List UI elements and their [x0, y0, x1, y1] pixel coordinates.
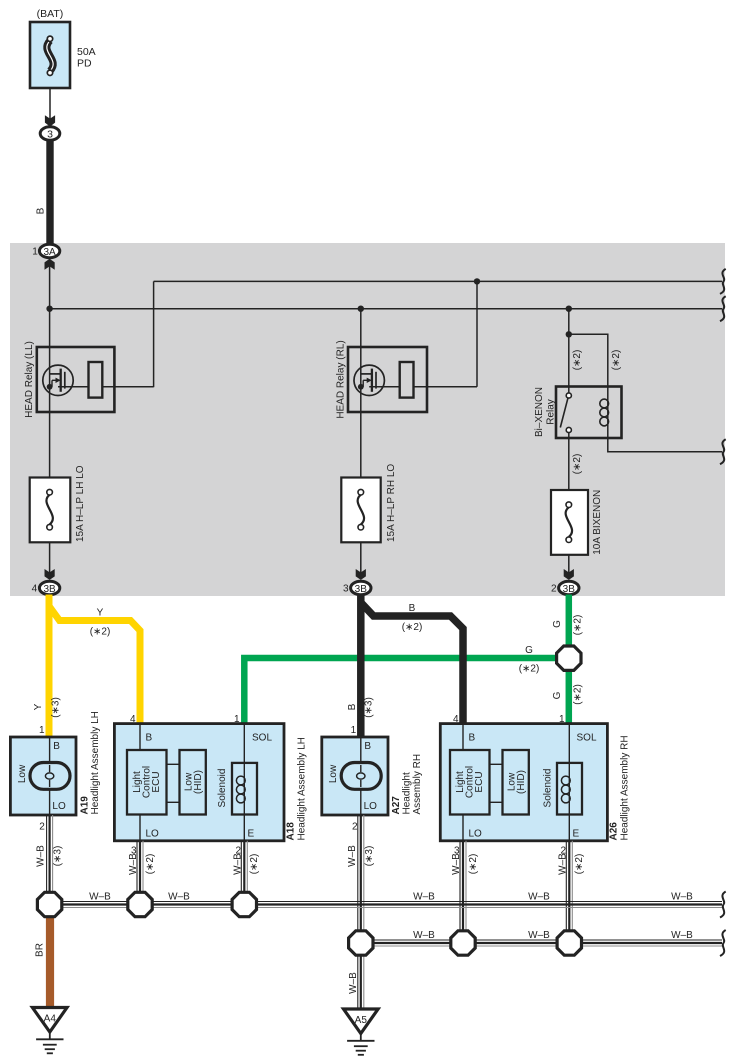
- label Y on branch: [97, 608, 104, 619]
- svg-text:A19: A19: [80, 796, 91, 815]
- wire G (green) from 3B to splice: [566, 595, 573, 651]
- svg-text:G: G: [552, 691, 563, 699]
- value label 50A PD: [77, 46, 96, 70]
- svg-text:G: G: [525, 645, 533, 656]
- wire color label B: [36, 207, 47, 214]
- svg-text:Headlight Assembly RH: Headlight Assembly RH: [620, 735, 631, 840]
- splice octagon bus1 A18 E: [232, 892, 256, 916]
- svg-text:(∗2): (∗2): [145, 854, 156, 875]
- svg-text:W–B: W–B: [232, 853, 243, 875]
- svg-text:B: B: [36, 207, 47, 214]
- svg-text:LO: LO: [469, 829, 483, 840]
- junction dot RL column at bus 2: [358, 306, 364, 312]
- label (*3) on A19 drop: [51, 697, 62, 718]
- label (*2) (A18 LO): [145, 854, 156, 875]
- pin 3 of connector 3B (RL): [343, 584, 349, 595]
- HEAD Relay (RL) label: [336, 340, 347, 418]
- pin 3 of A26: [454, 846, 460, 857]
- wire W-B from A26 E to splice bus 2: [566, 841, 572, 934]
- svg-text:2: 2: [39, 822, 45, 833]
- label BR: [35, 943, 46, 957]
- label A27: [391, 796, 402, 815]
- break mark bus 1 right edge: [720, 269, 726, 294]
- label (*2) on branch: [402, 622, 423, 633]
- connector 3B (bixenon): [559, 581, 579, 595]
- connector 3: [40, 127, 60, 141]
- wire LL relay output riser: [153, 281, 155, 387]
- break mark bus2 right edge: [720, 930, 726, 956]
- arrow into 3B (RL): [356, 569, 366, 580]
- svg-text:15A H–LP RH LO: 15A H–LP RH LO: [386, 464, 397, 542]
- junction dot RL output riser at bus 1: [474, 278, 480, 284]
- svg-text:B: B: [53, 741, 60, 752]
- wire W-B from A18 LO to splice: [137, 841, 143, 895]
- svg-text:1: 1: [32, 247, 38, 258]
- svg-text:W–B: W–B: [671, 930, 693, 941]
- label G above splice: [552, 620, 563, 628]
- label Headlight Assembly RH (A26): [620, 735, 631, 840]
- wire W-B from bus2 splice down to ground A5: [358, 952, 364, 1009]
- svg-text:E: E: [573, 829, 580, 840]
- pin 2 of A27: [352, 822, 358, 833]
- svg-text:W–B: W–B: [671, 892, 693, 903]
- pin 1 of connector 3A: [32, 247, 38, 258]
- svg-text:(∗2): (∗2): [402, 622, 423, 633]
- svg-text:2: 2: [551, 584, 557, 595]
- splice octagon (green): [557, 646, 581, 670]
- label (*2) above splice: [572, 615, 583, 636]
- label W-B bus1 a: [89, 892, 111, 903]
- svg-text:E: E: [248, 829, 255, 840]
- break mark bus1 right edge: [720, 892, 726, 918]
- arrow into connector 3: [45, 115, 55, 126]
- splice octagon bus2 A26 LO: [451, 931, 475, 955]
- pin 2 of connector 3B (bixenon): [551, 584, 557, 595]
- wire Bi-XENON column (bus 2 down to relay): [568, 309, 570, 387]
- wire W-B from A27 down to splice bus 2: [358, 815, 364, 934]
- label Y on A19 drop: [33, 703, 44, 710]
- label (BAT): [37, 8, 64, 20]
- svg-text:BR: BR: [35, 943, 46, 957]
- label Headlight Assembly LH (A19): [90, 711, 101, 814]
- label W-B (A19 drop): [36, 845, 47, 867]
- label W-B bus1 e: [671, 892, 693, 903]
- wire fuse RL to connector 3B: [360, 542, 362, 573]
- svg-text:(BAT): (BAT): [37, 8, 64, 20]
- svg-text:Headlight: Headlight: [402, 772, 413, 814]
- junction dot Bi-XENON column at bus 2: [566, 306, 572, 312]
- pin 4 of A26: [453, 714, 459, 725]
- svg-text:Assembly RH: Assembly RH: [412, 754, 423, 815]
- svg-text:ECU: ECU: [151, 771, 162, 792]
- svg-text:A5: A5: [355, 1015, 368, 1026]
- svg-text:W–B: W–B: [557, 853, 568, 875]
- wire W-B from A19 to splice: [47, 815, 53, 895]
- svg-text:SOL: SOL: [252, 733, 272, 744]
- break mark bus 2 right edge: [720, 296, 726, 321]
- splice octagon bus2 A27: [349, 931, 373, 955]
- svg-text:(∗2): (∗2): [611, 350, 622, 371]
- relay HEAD Relay (LL): [37, 347, 154, 412]
- svg-text:Low: Low: [328, 764, 339, 783]
- label Headlight Assembly LH (A18): [297, 737, 308, 840]
- wire branch to relay coil: [569, 334, 608, 387]
- label A18: [286, 822, 297, 841]
- label (*2) below relay: [572, 454, 583, 475]
- svg-text:W–B: W–B: [451, 853, 462, 875]
- svg-text:Headlight Assembly LH: Headlight Assembly LH: [90, 711, 101, 814]
- label (*2) (A18 E): [249, 854, 260, 875]
- svg-text:Low: Low: [17, 764, 28, 783]
- svg-text:(∗3): (∗3): [51, 697, 62, 718]
- svg-text:B: B: [146, 733, 153, 744]
- svg-text:Solenoid: Solenoid: [217, 769, 228, 808]
- label (*3) on A27 drop: [364, 697, 375, 718]
- svg-text:W–B: W–B: [413, 930, 435, 941]
- splice octagon bus2 A26 E: [557, 931, 581, 955]
- wire B (black) main drop to A27: [357, 595, 365, 738]
- svg-text:1: 1: [351, 725, 357, 736]
- svg-text:3A: 3A: [43, 247, 56, 258]
- svg-text:(HID): (HID): [193, 770, 204, 794]
- label W-B bus1 c: [413, 892, 435, 903]
- svg-text:Y: Y: [33, 703, 44, 710]
- arrow into 3B (LL): [45, 569, 55, 580]
- junction dot Bi-XENON coil branch: [566, 331, 572, 337]
- wire W-B from A26 LO to splice bus 2: [460, 841, 466, 934]
- svg-text:B: B: [469, 733, 476, 744]
- pin 3 of A18: [131, 846, 137, 857]
- svg-text:W–B: W–B: [413, 892, 435, 903]
- svg-text:W–B: W–B: [528, 892, 550, 903]
- svg-text:(∗2): (∗2): [90, 627, 111, 638]
- pin 1 of A26: [559, 714, 565, 725]
- wire coil return to right edge: [608, 430, 722, 452]
- wire W-B ground bus 1: [50, 902, 722, 908]
- svg-text:ECU: ECU: [474, 771, 485, 792]
- label W-B (A18 E): [232, 853, 243, 875]
- svg-text:3: 3: [47, 129, 53, 141]
- Bi-XENON Relay label: [534, 387, 557, 437]
- svg-text:(∗2): (∗2): [468, 854, 479, 875]
- splice octagon bus1 A19: [37, 892, 61, 916]
- wire LL column vertical (3A to fuse): [49, 262, 51, 478]
- label (*2) on coil feed: [611, 350, 622, 371]
- ground A4: [32, 1008, 67, 1054]
- wire B (thick black battery feed): [46, 140, 53, 246]
- label (*3) (A19 drop): [53, 846, 64, 867]
- fuse 15A H-LP LH LO: [30, 478, 71, 543]
- svg-text:B: B: [347, 703, 358, 710]
- headlight assembly A27 (Low bulb RH): [322, 737, 388, 815]
- connector 3B (LL): [39, 581, 59, 595]
- wire relay switch to fuse: [568, 438, 570, 490]
- svg-text:W–B: W–B: [89, 892, 111, 903]
- wire bus line 2 (battery feed rail): [50, 308, 722, 310]
- svg-text:W–B: W–B: [128, 853, 139, 875]
- arrow up from 3A into relay block: [45, 259, 55, 270]
- label (*2) on horizontal green: [519, 664, 540, 675]
- relay Bi-XENON: [556, 387, 622, 439]
- label (*2) (A26 E): [574, 854, 585, 875]
- label W-B bus1 b: [168, 892, 190, 903]
- label (*2) below splice: [572, 684, 583, 705]
- pin 1 of A18: [234, 714, 240, 725]
- svg-text:Headlight Assembly LH: Headlight Assembly LH: [297, 737, 308, 840]
- headlight assembly A26 (HID unit RH): [440, 724, 607, 841]
- svg-text:W–B: W–B: [168, 892, 190, 903]
- svg-text:2: 2: [352, 822, 358, 833]
- relay block background (gray): [10, 243, 725, 596]
- wire fuse to connector 3B (bixenon): [568, 555, 570, 573]
- label W-B (ground A5 drop): [348, 972, 359, 994]
- pin 2 of A18: [235, 846, 241, 857]
- wire W-B ground bus 2: [361, 940, 722, 946]
- svg-text:(∗2): (∗2): [249, 854, 260, 875]
- svg-text:W–B: W–B: [36, 845, 47, 867]
- svg-text:HEAD Relay (RL): HEAD Relay (RL): [336, 340, 347, 418]
- svg-text:SOL: SOL: [577, 733, 597, 744]
- headlight assembly A19 (Low bulb LH): [10, 737, 76, 815]
- label (*2) (A26 LO): [468, 854, 479, 875]
- svg-text:B: B: [364, 741, 371, 752]
- fuse label 15A H-LP RH LO: [386, 464, 397, 542]
- label W-B (A27 drop): [347, 845, 358, 867]
- svg-text:(∗3): (∗3): [364, 846, 375, 867]
- svg-text:A18: A18: [286, 822, 297, 841]
- label W-B bus2 a: [413, 930, 435, 941]
- wire BR (brown) to ground A4: [46, 910, 54, 1008]
- headlight assembly A18 (HID unit LH): [114, 724, 284, 841]
- label (*2) on switch feed: [572, 350, 583, 371]
- svg-text:Bi–XENON: Bi–XENON: [534, 387, 545, 437]
- break mark coil return right edge: [720, 439, 726, 464]
- svg-text:A4: A4: [44, 1014, 57, 1025]
- relay HEAD Relay (RL): [348, 281, 477, 412]
- fusible link 50A PD (battery fuse): [30, 22, 70, 88]
- connector 3B (RL): [351, 581, 371, 595]
- pin 1 of A27: [351, 725, 357, 736]
- svg-text:G: G: [552, 620, 563, 628]
- wire W-B from A18 E to splice: [241, 841, 247, 895]
- svg-text:A26: A26: [609, 822, 620, 841]
- connector 3A: [39, 244, 59, 258]
- svg-text:LO: LO: [146, 829, 160, 840]
- svg-text:Solenoid: Solenoid: [543, 769, 554, 808]
- svg-text:W–B: W–B: [348, 972, 359, 994]
- svg-text:(∗2): (∗2): [572, 615, 583, 636]
- label W-B (A18 LO): [128, 853, 139, 875]
- wire RL column vertical (bus 2 to fuse): [360, 309, 362, 478]
- fuse 15A H-LP RH LO: [341, 478, 380, 543]
- svg-text:PD: PD: [77, 58, 92, 70]
- svg-text:(HID): (HID): [516, 770, 527, 794]
- svg-text:Y: Y: [97, 608, 104, 619]
- svg-text:(∗2): (∗2): [519, 664, 540, 675]
- svg-text:LO: LO: [52, 801, 66, 812]
- label W-B bus2 b: [528, 930, 550, 941]
- fuse label 15A H-LP LH LO: [75, 465, 86, 542]
- fuse 10A BIXENON: [551, 490, 588, 555]
- svg-text:W–B: W–B: [528, 930, 550, 941]
- svg-text:HEAD Relay (LL): HEAD Relay (LL): [24, 341, 35, 418]
- label Headlight Assembly RH (A27): [402, 754, 424, 815]
- label (*2) on branch: [90, 627, 111, 638]
- svg-text:15A H–LP LH LO: 15A H–LP LH LO: [75, 465, 86, 542]
- label G on horizontal green: [525, 645, 533, 656]
- pin 4 of A18: [130, 714, 136, 725]
- fuse label 10A BIXENON: [592, 490, 603, 555]
- splice octagon bus1 A18 LO: [128, 892, 152, 916]
- svg-text:(∗2): (∗2): [572, 684, 583, 705]
- wire G (green) splice to A18 SOL: [244, 658, 558, 724]
- wire G (green) splice down to A26 SOL: [566, 666, 573, 724]
- label B on branch: [409, 603, 416, 614]
- pin 4 of connector 3B (LL): [32, 584, 38, 595]
- svg-text:(∗2): (∗2): [574, 854, 585, 875]
- svg-text:(∗3): (∗3): [53, 846, 64, 867]
- pin 2 of A26: [560, 846, 566, 857]
- svg-text:3B: 3B: [355, 584, 368, 595]
- svg-text:1: 1: [39, 725, 45, 736]
- label (*3) (A27 drop): [364, 846, 375, 867]
- label W-B (A26 LO): [451, 853, 462, 875]
- ground A5: [344, 1009, 379, 1055]
- wire from fuse to connector 3: [49, 88, 51, 125]
- svg-text:(∗2): (∗2): [572, 350, 583, 371]
- wire Y (yellow) main drop to A19: [46, 595, 53, 738]
- svg-text:3B: 3B: [43, 584, 56, 595]
- svg-text:10A BIXENON: 10A BIXENON: [592, 490, 603, 555]
- svg-text:(∗3): (∗3): [364, 697, 375, 718]
- svg-text:3B: 3B: [563, 584, 576, 595]
- wire fuse LL to connector 3B: [49, 542, 51, 573]
- svg-text:W–B: W–B: [347, 845, 358, 867]
- wire bus line 1 (relay outputs): [154, 280, 722, 282]
- wire B (black) branch to A26 pin B: [361, 603, 463, 724]
- label G below splice: [552, 691, 563, 699]
- pin 1 of A19: [39, 725, 45, 736]
- pin 2 of A19: [39, 822, 45, 833]
- wire Y (yellow) branch to A18 pin B: [49, 606, 140, 737]
- label W-B (A26 E): [557, 853, 568, 875]
- junction dot on LL column at bus 2: [46, 306, 52, 312]
- label B on A27 drop: [347, 703, 358, 710]
- label W-B bus2 c: [671, 930, 693, 941]
- svg-text:A27: A27: [391, 796, 402, 815]
- svg-text:4: 4: [32, 584, 38, 595]
- svg-text:(∗2): (∗2): [572, 454, 583, 475]
- label A26: [609, 822, 620, 841]
- arrow into 3B (bixenon): [564, 569, 574, 580]
- svg-text:LO: LO: [364, 801, 378, 812]
- svg-text:50A: 50A: [77, 46, 96, 58]
- HEAD Relay (LL) label: [24, 341, 35, 418]
- svg-text:3: 3: [343, 584, 349, 595]
- label A19: [80, 796, 91, 815]
- label W-B bus1 d: [528, 892, 550, 903]
